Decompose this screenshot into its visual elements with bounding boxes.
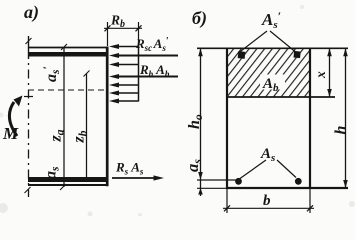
svg-text:h: h [333,126,350,135]
svg-text:as′: as′ [40,66,62,82]
svg-text:zb: zb [71,130,90,143]
svg-text:RsAs: RsAs [115,160,144,177]
svg-text:RscAs′: RscAs′ [135,36,169,53]
svg-text:as: as [43,166,62,179]
svg-text:As: As [260,146,275,164]
svg-text:а): а) [24,2,39,23]
svg-text:za: za [48,129,67,142]
svg-text:x: x [313,71,328,79]
svg-text:b: b [263,193,271,209]
svg-text:as: as [183,159,204,172]
svg-text:ho: ho [186,114,205,129]
svg-text:б): б) [192,8,207,29]
svg-text:Rb: Rb [110,13,125,31]
svg-text:As′: As′ [261,9,281,31]
svg-text:M: M [2,124,19,143]
